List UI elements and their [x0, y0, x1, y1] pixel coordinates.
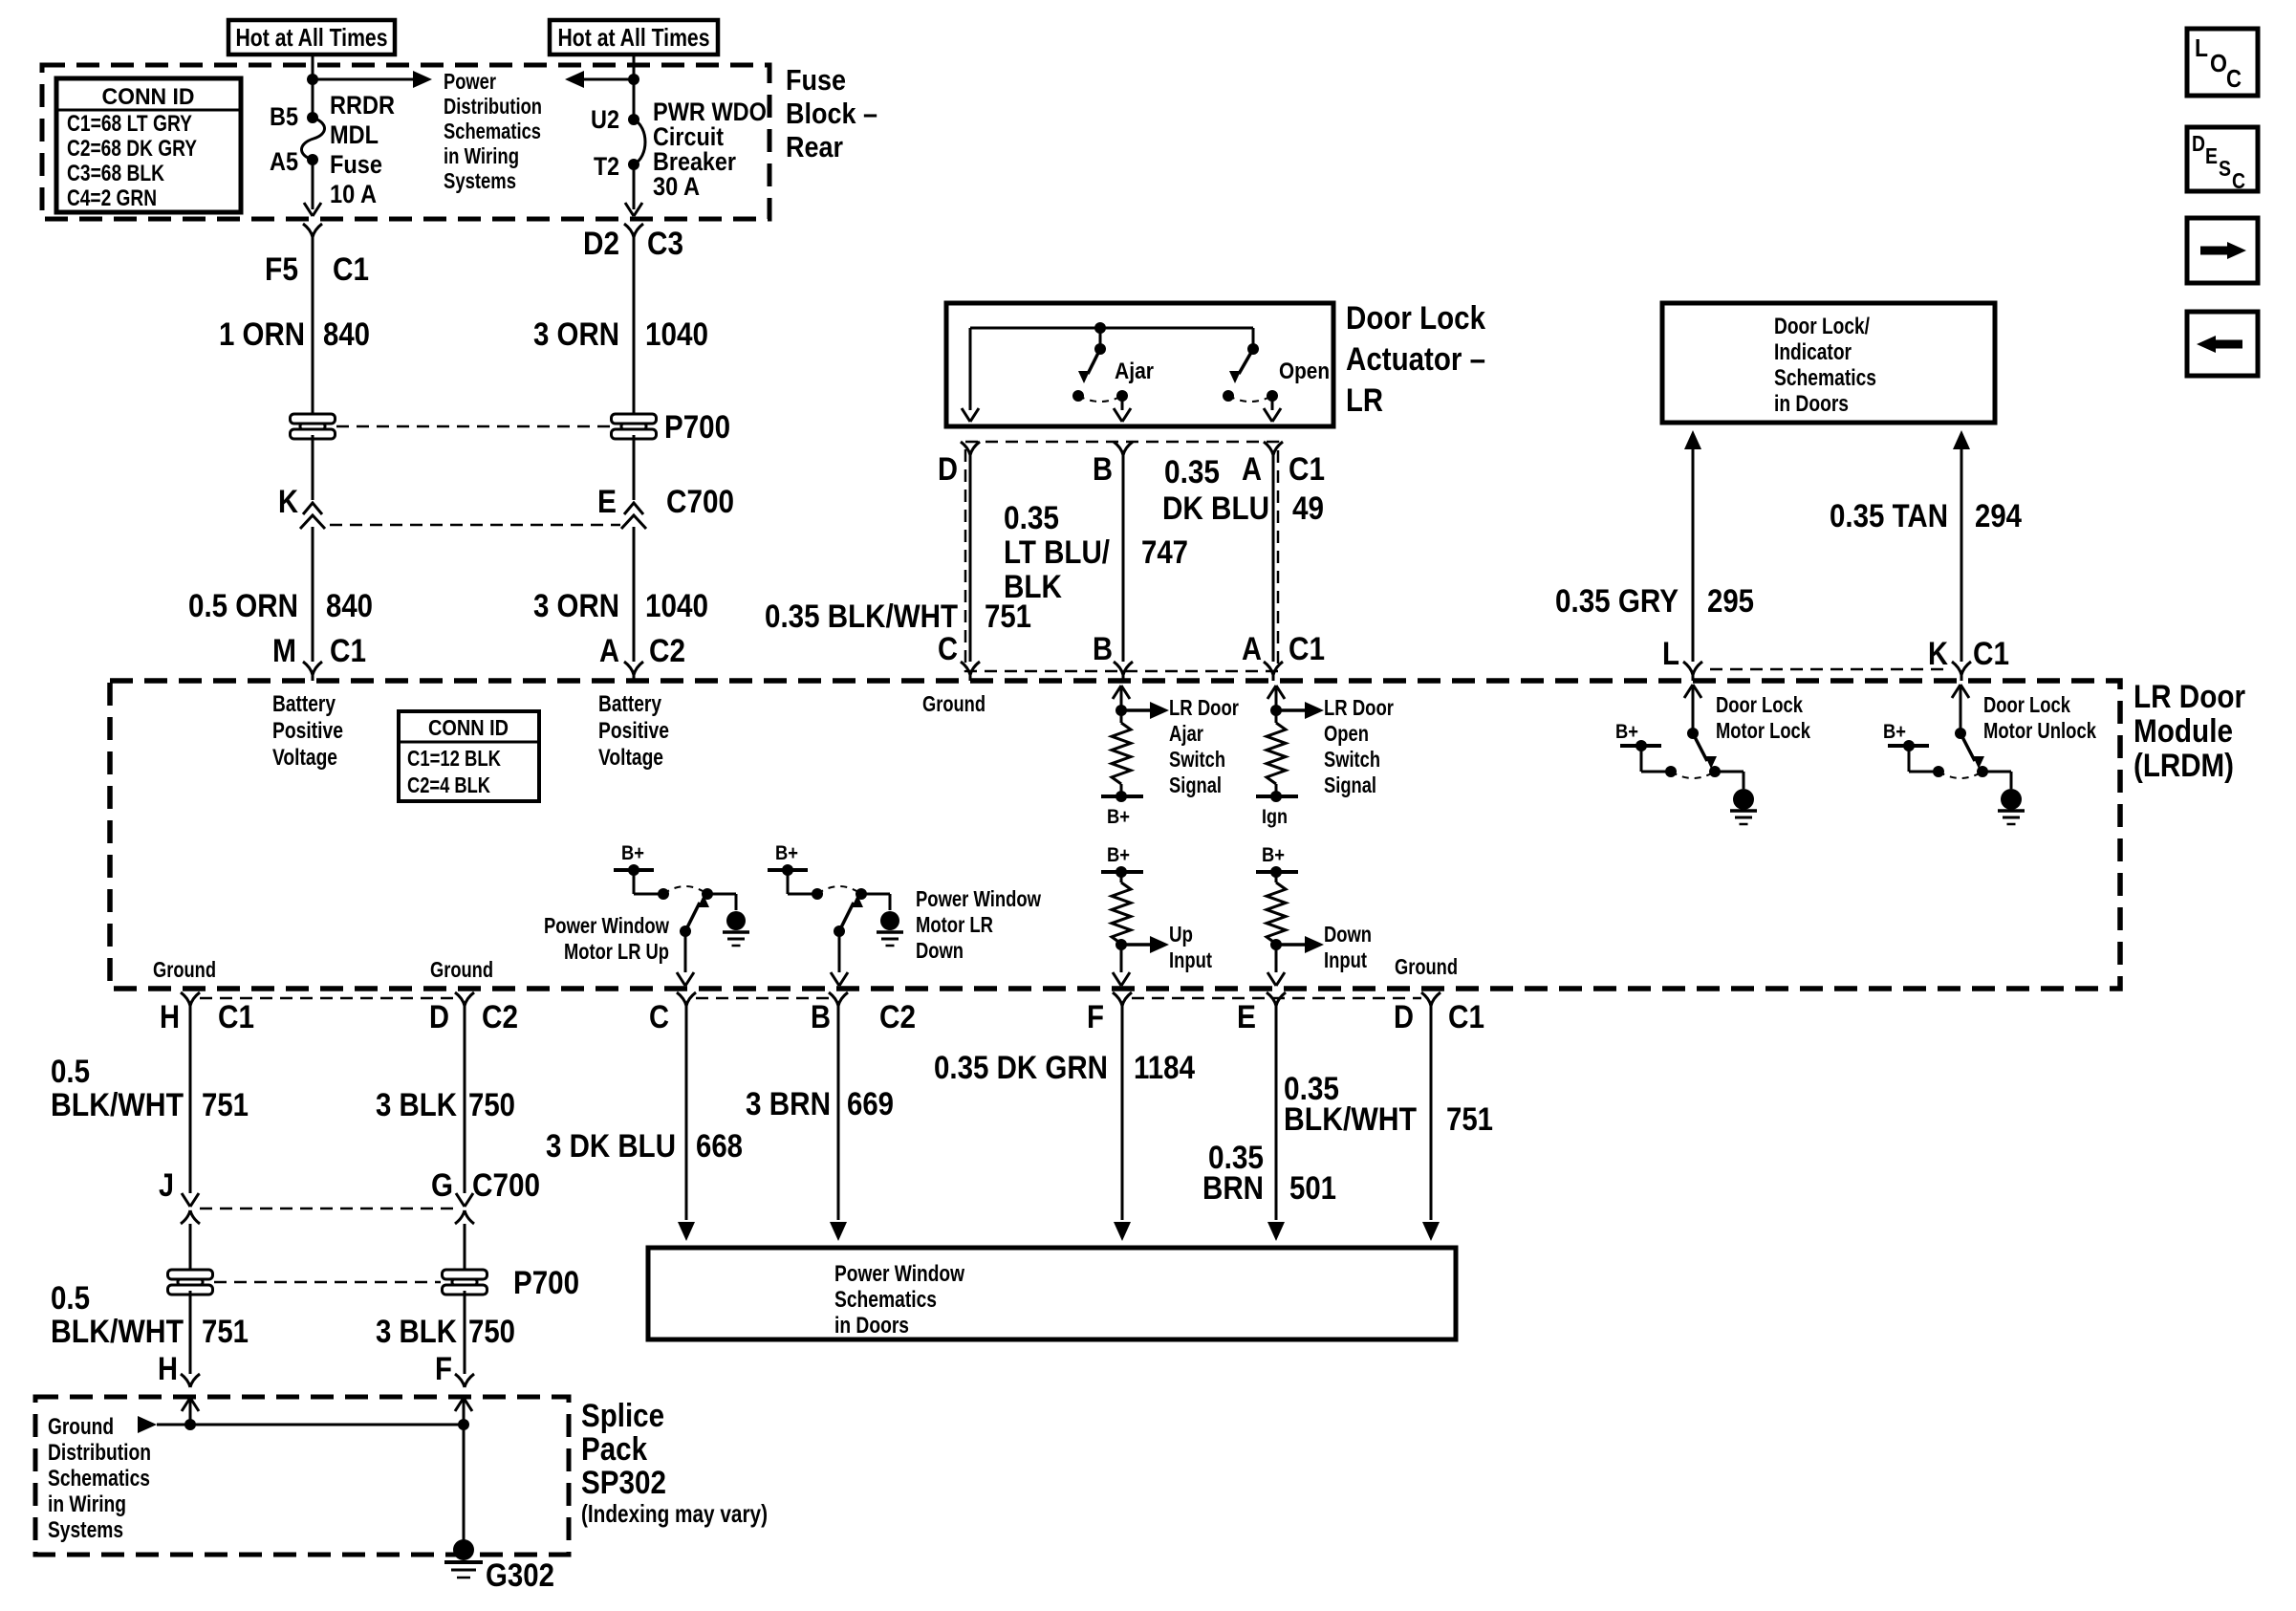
- svg-text:H: H: [160, 999, 180, 1035]
- svg-text:Open: Open: [1279, 359, 1330, 384]
- svg-text:P700: P700: [664, 409, 730, 446]
- svg-text:Ground: Ground: [153, 957, 216, 982]
- svg-text:B+: B+: [1107, 844, 1130, 866]
- svg-text:H: H: [158, 1351, 178, 1387]
- svg-text:Rear: Rear: [786, 130, 843, 163]
- svg-text:C1: C1: [1448, 999, 1484, 1035]
- svg-text:in Doors: in Doors: [834, 1313, 909, 1339]
- svg-text:Door Lock/: Door Lock/: [1774, 314, 1870, 339]
- svg-text:C1: C1: [1973, 636, 2009, 672]
- svg-text:D2: D2: [583, 226, 619, 262]
- svg-text:0.35: 0.35: [1004, 500, 1059, 536]
- svg-text:G302: G302: [486, 1557, 554, 1594]
- svg-text:Ground: Ground: [1395, 954, 1458, 979]
- svg-text:C1: C1: [1289, 451, 1325, 488]
- svg-text:Positive: Positive: [598, 718, 669, 744]
- svg-text:669: 669: [847, 1086, 894, 1122]
- svg-text:747: 747: [1141, 534, 1188, 571]
- svg-text:Distribution: Distribution: [48, 1440, 151, 1466]
- svg-text:T2: T2: [594, 152, 619, 181]
- svg-text:LR Door: LR Door: [2134, 679, 2245, 715]
- svg-text:751: 751: [1446, 1101, 1493, 1138]
- svg-text:Schematics: Schematics: [834, 1287, 937, 1313]
- svg-text:Door Lock: Door Lock: [1983, 692, 2070, 717]
- svg-text:Actuator –: Actuator –: [1346, 341, 1485, 378]
- svg-text:668: 668: [696, 1128, 743, 1165]
- svg-text:C1: C1: [218, 999, 254, 1035]
- svg-text:Distribution: Distribution: [444, 94, 542, 119]
- svg-text:Module: Module: [2134, 713, 2233, 750]
- svg-text:D: D: [1394, 999, 1414, 1035]
- svg-text:Systems: Systems: [444, 168, 516, 193]
- svg-text:C4=2 GRN: C4=2 GRN: [67, 185, 157, 211]
- svg-text:Positive: Positive: [272, 718, 343, 744]
- svg-text:B: B: [811, 999, 831, 1035]
- svg-text:C2: C2: [482, 999, 518, 1035]
- svg-text:Fuse: Fuse: [330, 150, 382, 179]
- svg-text:501: 501: [1289, 1170, 1336, 1207]
- svg-text:C2: C2: [649, 633, 685, 669]
- svg-text:J: J: [159, 1167, 174, 1204]
- svg-text:C700: C700: [666, 484, 734, 520]
- svg-text:1184: 1184: [1134, 1050, 1195, 1086]
- svg-text:Signal: Signal: [1169, 773, 1222, 797]
- svg-text:A5: A5: [270, 147, 298, 176]
- svg-text:Indicator: Indicator: [1774, 339, 1852, 365]
- svg-text:Switch: Switch: [1169, 747, 1225, 772]
- svg-text:751: 751: [202, 1314, 249, 1350]
- svg-text:E: E: [2205, 143, 2218, 168]
- svg-text:Motor LR Up: Motor LR Up: [564, 939, 669, 964]
- svg-text:C: C: [938, 631, 958, 667]
- svg-text:C1: C1: [333, 251, 369, 288]
- svg-text:3 BRN: 3 BRN: [746, 1086, 831, 1122]
- svg-text:C3: C3: [647, 226, 683, 262]
- svg-text:0.5 ORN: 0.5 ORN: [188, 588, 298, 624]
- svg-text:A: A: [599, 633, 619, 669]
- svg-text:751: 751: [202, 1087, 249, 1123]
- svg-text:E: E: [597, 484, 617, 520]
- svg-text:C: C: [2226, 64, 2242, 93]
- svg-text:D: D: [2192, 131, 2205, 156]
- svg-text:MDL: MDL: [330, 120, 379, 149]
- svg-text:Ajar: Ajar: [1169, 721, 1203, 746]
- svg-text:Ign: Ign: [1262, 806, 1288, 828]
- svg-text:Battery: Battery: [598, 691, 662, 717]
- svg-text:C: C: [649, 999, 669, 1035]
- svg-text:A: A: [1242, 451, 1262, 488]
- svg-text:Down: Down: [916, 938, 964, 963]
- svg-text:in Wiring: in Wiring: [48, 1491, 126, 1517]
- svg-text:C3=68 BLK: C3=68 BLK: [67, 161, 165, 186]
- svg-text:(Indexing may vary): (Indexing may vary): [581, 1499, 768, 1528]
- svg-text:Power Window: Power Window: [834, 1261, 964, 1287]
- svg-text:Input: Input: [1169, 947, 1212, 972]
- svg-text:Schematics: Schematics: [444, 119, 541, 143]
- svg-text:C1: C1: [330, 633, 366, 669]
- svg-text:3 DK BLU: 3 DK BLU: [546, 1128, 676, 1165]
- svg-text:LR Door: LR Door: [1324, 695, 1394, 720]
- svg-text:F: F: [435, 1351, 452, 1387]
- svg-text:Fuse: Fuse: [786, 63, 846, 97]
- svg-text:1040: 1040: [645, 588, 708, 624]
- svg-text:0.5: 0.5: [51, 1280, 90, 1317]
- svg-text:BLK: BLK: [1004, 569, 1062, 605]
- svg-text:G: G: [431, 1167, 453, 1204]
- svg-text:K: K: [278, 484, 298, 520]
- svg-text:Motor Unlock: Motor Unlock: [1983, 718, 2096, 743]
- svg-text:in Wiring: in Wiring: [444, 143, 519, 168]
- svg-text:Input: Input: [1324, 947, 1367, 972]
- svg-text:294: 294: [1975, 498, 2022, 534]
- svg-text:Voltage: Voltage: [272, 745, 337, 771]
- svg-text:Ground: Ground: [430, 957, 493, 982]
- svg-text:Power Window: Power Window: [544, 913, 669, 938]
- svg-text:CONN ID: CONN ID: [428, 715, 509, 740]
- svg-text:Door Lock: Door Lock: [1346, 300, 1485, 337]
- svg-text:LR Door: LR Door: [1169, 695, 1239, 720]
- svg-text:1 ORN: 1 ORN: [219, 316, 305, 353]
- svg-text:750: 750: [468, 1087, 515, 1123]
- svg-text:0.35 DK GRN: 0.35 DK GRN: [934, 1050, 1108, 1086]
- svg-text:3 ORN: 3 ORN: [533, 588, 619, 624]
- svg-text:C1=68 LT GRY: C1=68 LT GRY: [67, 111, 192, 137]
- svg-text:0.35 GRY: 0.35 GRY: [1555, 583, 1679, 620]
- svg-text:Ajar: Ajar: [1115, 359, 1154, 384]
- svg-text:C1: C1: [1289, 631, 1325, 667]
- svg-text:LT BLU/: LT BLU/: [1004, 534, 1110, 571]
- svg-text:Open: Open: [1324, 721, 1369, 746]
- svg-text:BRN: BRN: [1202, 1170, 1264, 1207]
- svg-text:Pack: Pack: [581, 1431, 647, 1468]
- svg-text:3 ORN: 3 ORN: [533, 316, 619, 353]
- svg-text:Door Lock: Door Lock: [1716, 692, 1803, 717]
- svg-text:C1=12 BLK: C1=12 BLK: [407, 746, 501, 771]
- svg-text:Block –: Block –: [786, 97, 877, 130]
- svg-text:0.35: 0.35: [1164, 454, 1220, 490]
- svg-text:C2: C2: [879, 999, 916, 1035]
- svg-text:B+: B+: [621, 842, 644, 864]
- svg-text:B+: B+: [1615, 721, 1638, 743]
- svg-text:D: D: [938, 451, 958, 488]
- svg-text:0.35 TAN: 0.35 TAN: [1830, 498, 1948, 534]
- svg-text:P700: P700: [513, 1265, 579, 1301]
- svg-text:E: E: [1237, 999, 1256, 1035]
- svg-text:C: C: [2232, 168, 2245, 193]
- svg-text:Ground: Ground: [48, 1414, 114, 1440]
- svg-text:Signal: Signal: [1324, 773, 1376, 797]
- svg-text:295: 295: [1707, 583, 1754, 620]
- svg-text:K: K: [1928, 636, 1948, 672]
- svg-text:Power: Power: [444, 69, 496, 94]
- svg-text:F: F: [1087, 999, 1104, 1035]
- svg-text:C2=68 DK GRY: C2=68 DK GRY: [67, 136, 197, 162]
- svg-text:B5: B5: [270, 102, 298, 131]
- svg-text:3 BLK: 3 BLK: [376, 1314, 457, 1350]
- svg-text:L: L: [2195, 33, 2208, 62]
- svg-text:LR: LR: [1346, 382, 1383, 419]
- svg-text:CONN ID: CONN ID: [102, 84, 195, 110]
- svg-text:Voltage: Voltage: [598, 745, 663, 771]
- svg-text:Up: Up: [1169, 922, 1193, 947]
- svg-text:Splice: Splice: [581, 1398, 664, 1434]
- svg-text:C2=4 BLK: C2=4 BLK: [407, 773, 490, 797]
- svg-text:B: B: [1093, 451, 1113, 488]
- svg-text:(LRDM): (LRDM): [2134, 748, 2234, 784]
- svg-text:1040: 1040: [645, 316, 708, 353]
- svg-text:Switch: Switch: [1324, 747, 1380, 772]
- svg-text:Battery: Battery: [272, 691, 336, 717]
- svg-text:B+: B+: [1107, 806, 1130, 828]
- svg-text:B+: B+: [775, 842, 798, 864]
- svg-text:BLK/WHT: BLK/WHT: [51, 1314, 184, 1350]
- svg-text:10 A: 10 A: [330, 180, 377, 208]
- svg-text:B+: B+: [1262, 844, 1285, 866]
- svg-text:U2: U2: [591, 105, 619, 134]
- svg-text:S: S: [2219, 156, 2231, 181]
- svg-text:C700: C700: [472, 1167, 540, 1204]
- svg-text:in Doors: in Doors: [1774, 391, 1849, 417]
- svg-text:49: 49: [1292, 490, 1324, 527]
- svg-text:0.5: 0.5: [51, 1054, 90, 1090]
- svg-text:840: 840: [326, 588, 373, 624]
- svg-text:Hot at All Times: Hot at All Times: [236, 23, 388, 52]
- svg-text:30 A: 30 A: [653, 172, 700, 201]
- svg-text:B: B: [1093, 631, 1113, 667]
- svg-text:D: D: [429, 999, 449, 1035]
- svg-text:Motor LR: Motor LR: [916, 912, 993, 937]
- svg-text:Power Window: Power Window: [916, 886, 1041, 911]
- svg-text:M: M: [272, 633, 296, 669]
- svg-text:A: A: [1242, 631, 1262, 667]
- svg-text:F5: F5: [265, 251, 298, 288]
- svg-text:RRDR: RRDR: [330, 91, 395, 120]
- svg-text:3 BLK: 3 BLK: [376, 1087, 457, 1123]
- svg-text:Down: Down: [1324, 922, 1372, 947]
- svg-text:SP302: SP302: [581, 1465, 666, 1501]
- svg-text:Schematics: Schematics: [1774, 365, 1876, 391]
- svg-text:O: O: [2210, 49, 2227, 77]
- svg-text:B+: B+: [1883, 721, 1906, 743]
- svg-text:0.35 BLK/WHT: 0.35 BLK/WHT: [765, 599, 958, 635]
- svg-text:Hot at All Times: Hot at All Times: [558, 23, 710, 52]
- svg-text:Schematics: Schematics: [48, 1466, 150, 1491]
- svg-text:L: L: [1662, 636, 1679, 672]
- svg-text:DK BLU: DK BLU: [1162, 490, 1269, 527]
- svg-text:750: 750: [468, 1314, 515, 1350]
- svg-text:Motor Lock: Motor Lock: [1716, 718, 1810, 743]
- svg-text:Systems: Systems: [48, 1517, 123, 1543]
- svg-text:BLK/WHT: BLK/WHT: [1284, 1101, 1417, 1138]
- svg-text:840: 840: [323, 316, 370, 353]
- svg-text:Ground: Ground: [922, 691, 986, 716]
- svg-text:BLK/WHT: BLK/WHT: [51, 1087, 184, 1123]
